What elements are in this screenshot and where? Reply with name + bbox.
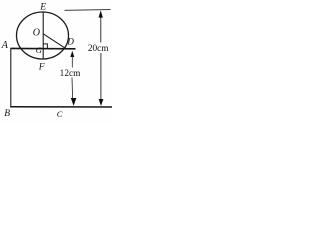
dimension 20cm upper arrow (99, 10, 103, 17)
wire radius O-D (43, 34, 66, 49)
svg-text:B: B (4, 109, 10, 119)
svg-text:C: C (57, 109, 63, 119)
svg-text:G: G (36, 45, 42, 55)
svg-text:D: D (66, 37, 74, 47)
right-angle mark at G (43, 44, 47, 49)
dimension 12cm lower arrow (71, 78, 74, 100)
wire B-C (bottom side) (10, 106, 112, 108)
wire chord A-D (10, 47, 75, 49)
svg-text:A: A (1, 40, 9, 51)
svg-text:E: E (39, 3, 46, 13)
dimension 20cm top tick (65, 9, 111, 12)
wire A-B (left side) (10, 48, 12, 106)
svg-text:20cm: 20cm (88, 44, 109, 54)
svg-text:12cm: 12cm (60, 69, 81, 79)
wire EF (vertical diameter through G) (42, 12, 44, 59)
dimension 12cm upper arrow (70, 51, 74, 57)
svg-text:O: O (33, 28, 40, 39)
svg-text:F: F (38, 63, 45, 73)
dimension 20cm lower arrow (100, 53, 102, 100)
circle O (17, 12, 69, 59)
